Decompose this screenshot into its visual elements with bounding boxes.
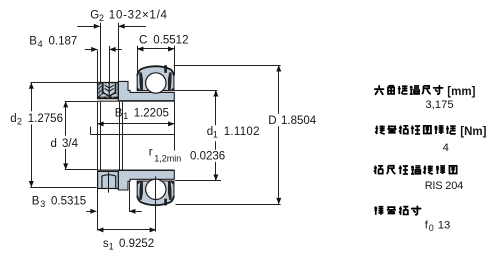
outer ring top xyxy=(137,66,174,90)
svg-text:4: 4 xyxy=(38,39,43,49)
ball top xyxy=(146,73,166,93)
header suitable rubber seal ring xyxy=(374,165,457,174)
svg-text:3: 3 xyxy=(40,199,45,209)
svg-text:d: d xyxy=(51,138,57,150)
svg-text:B: B xyxy=(32,196,40,208)
svg-text:d: d xyxy=(10,113,16,125)
svg-text:0.5512: 0.5512 xyxy=(153,34,188,46)
svg-text:B: B xyxy=(29,36,37,48)
dim D extension lines xyxy=(174,65,281,67)
inner ring sleeve top xyxy=(118,81,174,100)
bottom centerline over ball xyxy=(155,176,157,206)
centerline end tick xyxy=(90,127,92,135)
G2 arrows xyxy=(94,24,100,29)
B3 arrows xyxy=(90,209,96,214)
ring corner wedge left bottom xyxy=(137,181,141,185)
svg-text:3,175: 3,175 xyxy=(425,99,453,111)
svg-text:1: 1 xyxy=(109,241,114,251)
outer ring bottom crown band xyxy=(137,196,174,205)
gap extension line step xyxy=(122,102,124,171)
svg-text:1.1102: 1.1102 xyxy=(224,126,260,138)
dim d dimension line xyxy=(65,102,67,136)
dim B3 leader lines xyxy=(86,211,96,213)
set screw tree pattern xyxy=(108,83,110,95)
svg-text:1,2min: 1,2min xyxy=(154,154,181,164)
dim s1 dimension line xyxy=(97,229,156,231)
svg-text:G: G xyxy=(90,9,99,21)
grease hole top xyxy=(164,65,167,73)
collar top dashed border xyxy=(98,82,118,84)
label G2 thread xyxy=(90,9,167,23)
gap extension line collar-right xyxy=(119,102,121,171)
bore line top xyxy=(98,101,175,102)
d2 arrows xyxy=(29,83,34,89)
C arrows xyxy=(137,47,143,52)
svg-text:0.0236: 0.0236 xyxy=(190,151,225,163)
B1 arrows xyxy=(97,121,103,126)
eccentric locking collar bottom xyxy=(98,171,119,188)
header calculation factor xyxy=(374,206,420,215)
dim C dimension line xyxy=(137,48,174,50)
collar left flank hatch xyxy=(99,83,101,98)
header hex key size [mm] xyxy=(375,86,476,98)
shaft centerline horizontal xyxy=(90,134,174,136)
svg-text:3/4: 3/4 xyxy=(62,138,79,150)
header tightening torque [Nm] xyxy=(375,125,486,137)
set screw top xyxy=(102,83,116,97)
ball bottom xyxy=(146,179,166,199)
svg-text:0.187: 0.187 xyxy=(49,36,78,48)
outer ring top crown band xyxy=(137,66,174,75)
svg-text:1: 1 xyxy=(123,111,128,121)
svg-text:D: D xyxy=(268,115,276,127)
B4 arrows xyxy=(91,47,97,52)
svg-text:13: 13 xyxy=(438,220,451,232)
svg-text:2: 2 xyxy=(99,13,104,23)
svg-text:0.9252: 0.9252 xyxy=(119,238,154,250)
svg-text:10-32×1/4: 10-32×1/4 xyxy=(109,9,168,21)
d1 arrows xyxy=(213,90,218,96)
dim B4 extension line xyxy=(109,46,111,82)
set screw axis bottom xyxy=(108,172,110,192)
svg-text:0.5315: 0.5315 xyxy=(51,196,86,208)
svg-text:4: 4 xyxy=(443,142,449,154)
collar bottom dark row xyxy=(98,97,118,99)
bore line bottom xyxy=(98,170,175,171)
ring corner wedge right bottom xyxy=(170,181,174,185)
dim d2 dimension line xyxy=(31,83,33,112)
dim d2 extension lines xyxy=(31,82,98,84)
svg-text:1.2756: 1.2756 xyxy=(28,113,63,125)
gap extension line G2-left lower xyxy=(100,102,102,172)
dim B3 right extension line xyxy=(129,182,131,211)
svg-text:[mm]: [mm] xyxy=(447,86,475,98)
ring corner wedge right top xyxy=(170,87,174,91)
ring corner wedge left top xyxy=(137,87,141,91)
dim d1 extension lines xyxy=(175,90,218,92)
arrowheads xyxy=(29,24,281,233)
dim B1 dimension line xyxy=(97,123,174,125)
dim B4 leader lines xyxy=(85,49,97,51)
svg-text:1: 1 xyxy=(213,130,218,140)
svg-text:1.8504: 1.8504 xyxy=(281,115,317,127)
seal right bottom xyxy=(168,181,172,200)
d arrows xyxy=(63,101,68,107)
dim d extension lines xyxy=(65,101,98,103)
svg-text:r: r xyxy=(149,147,153,159)
long left extension line xyxy=(97,49,99,82)
s1 arrows xyxy=(97,227,103,232)
svg-text:0: 0 xyxy=(429,223,434,233)
eccentric locking collar top (hatched) xyxy=(98,83,119,99)
dim B1 right extension line xyxy=(174,101,176,151)
bottom centerline through ball xyxy=(155,176,157,231)
D arrows xyxy=(276,65,281,71)
outer ring bottom xyxy=(137,181,174,205)
seal left bottom xyxy=(139,181,143,200)
svg-text:B: B xyxy=(115,108,123,120)
seal right top xyxy=(168,72,172,90)
svg-text:1.2205: 1.2205 xyxy=(134,108,169,120)
dim D dimension line xyxy=(278,66,280,114)
svg-text:2: 2 xyxy=(17,117,22,127)
svg-text:RIS 204: RIS 204 xyxy=(425,180,463,192)
collar right flank hatch xyxy=(116,83,118,98)
svg-text:[Nm]: [Nm] xyxy=(460,126,486,138)
dim C extension lines xyxy=(137,46,139,75)
dim G2 leader lines xyxy=(77,26,99,28)
grease hole bottom xyxy=(164,199,167,206)
label B4 xyxy=(29,36,77,50)
set screw bottom xyxy=(102,175,116,189)
inner ring sleeve bottom xyxy=(118,170,174,190)
dim G2 extension lines xyxy=(100,23,102,83)
dim d1 dimension line xyxy=(215,91,217,126)
seal left top xyxy=(139,72,143,90)
svg-text:C: C xyxy=(139,34,147,46)
